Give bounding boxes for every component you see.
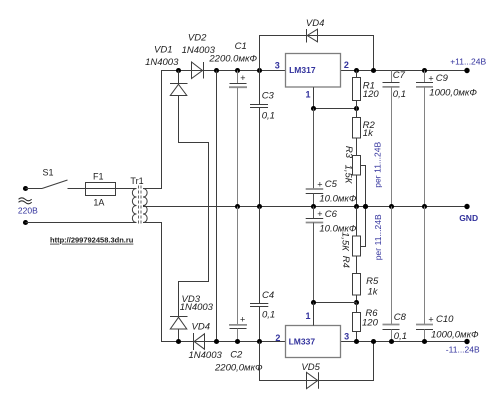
capacitor C9 (422, 68, 427, 73)
wire LM317 pin1 (313, 87, 315, 108)
svg-text:1000,0мкФ: 1000,0мкФ (431, 330, 479, 341)
svg-text:10.0мкФ: 10.0мкФ (319, 193, 356, 204)
svg-text:1N4003: 1N4003 (145, 57, 179, 68)
wire switch to fuse (68, 188, 86, 190)
op-amp U2 LM337 regulator box (286, 326, 341, 358)
svg-text:VD1: VD1 (154, 44, 172, 55)
svg-text:2: 2 (344, 60, 349, 70)
svg-text:3: 3 (344, 331, 349, 341)
svg-text:VD4: VD4 (306, 18, 324, 29)
svg-text:+11...24В: +11...24В (450, 57, 486, 67)
node input terminal top (23, 186, 28, 191)
svg-text:C8: C8 (394, 312, 407, 323)
svg-text:120: 120 (362, 318, 379, 329)
svg-text:1: 1 (305, 311, 310, 321)
svg-text:VD4: VD4 (192, 322, 210, 333)
resistor R1 (354, 68, 359, 73)
svg-text:2200.0мкФ: 2200.0мкФ (208, 53, 257, 64)
svg-text:+: + (240, 73, 245, 83)
diode VD5 bottom bypass (260, 342, 374, 381)
svg-text:C10: C10 (436, 314, 454, 325)
svg-text:рег 11...24В: рег 11...24В (373, 141, 383, 187)
svg-text:C7: C7 (393, 70, 406, 81)
diode VD1 (176, 68, 181, 73)
svg-text:R3: R3 (343, 146, 354, 159)
svg-text:1k: 1k (368, 286, 379, 297)
wire LM337 pin1 (313, 303, 315, 326)
capacitor C6 (313, 207, 315, 219)
svg-text:LM317: LM317 (289, 65, 316, 75)
node VD2 cathode (214, 68, 219, 73)
wire GND rail (143, 206, 467, 208)
svg-text:220В: 220В (18, 206, 38, 216)
resistor R2 (356, 109, 358, 118)
wire fuse to transformer (116, 188, 137, 190)
svg-text:C4: C4 (262, 290, 274, 301)
svg-text:1: 1 (305, 90, 310, 100)
wire input bottom (26, 222, 137, 224)
svg-text:1N4003: 1N4003 (189, 350, 223, 361)
diode VD3 (170, 316, 188, 318)
svg-text:0,1: 0,1 (394, 331, 407, 342)
svg-text:3: 3 (275, 61, 280, 71)
svg-text:+: + (317, 209, 322, 219)
capacitor C10 (424, 207, 426, 325)
svg-text:рег 11...24В: рег 11...24В (373, 214, 383, 260)
svg-text:C9: C9 (436, 73, 449, 84)
resistor R6 (354, 300, 359, 305)
svg-text:C6: C6 (325, 209, 338, 220)
capacitor C4 (257, 204, 262, 209)
svg-text:0,1: 0,1 (262, 111, 275, 122)
capacitor C2 (235, 204, 240, 209)
svg-text:+: + (240, 315, 245, 325)
wire top rail right (341, 70, 468, 72)
svg-text:GND: GND (459, 213, 478, 223)
svg-text:Tr1: Tr1 (130, 176, 143, 186)
wire input top (26, 188, 43, 190)
svg-text:0,1: 0,1 (262, 310, 275, 321)
wire vertical VD2 cathode to bottom rail (216, 71, 218, 342)
capacitor C7 (391, 71, 393, 83)
svg-text:2200,0мкФ: 2200,0мкФ (214, 363, 263, 374)
svg-text:1N4003: 1N4003 (180, 302, 214, 313)
svg-text:C5: C5 (325, 179, 338, 190)
svg-text:0,1: 0,1 (393, 89, 406, 100)
svg-text:C3: C3 (262, 90, 275, 101)
AC source symbol (19, 198, 32, 201)
svg-text:R4: R4 (340, 256, 351, 268)
wire ADJ line bottom (314, 302, 357, 304)
svg-text:C1: C1 (235, 41, 247, 52)
diode VD4 top bypass (260, 36, 374, 71)
wire secondary top (143, 71, 162, 189)
op-amp U1 LM317 regulator box (286, 54, 341, 88)
svg-text:1000,0мкФ: 1000,0мкФ (429, 88, 477, 99)
node GND terminal (464, 204, 469, 209)
resistor R3 potentiometer (353, 156, 361, 176)
svg-text:F1: F1 (93, 171, 104, 181)
node input terminal bottom (23, 220, 28, 225)
switch S1 (42, 180, 68, 189)
wire bottom rail left (161, 341, 286, 343)
svg-text:-11...24В: -11...24В (446, 344, 480, 354)
svg-text:2: 2 (275, 333, 280, 343)
resistor R5 (356, 256, 358, 274)
svg-text:LM337: LM337 (289, 336, 316, 346)
svg-text:+: + (428, 314, 433, 324)
svg-text:R5: R5 (366, 276, 379, 287)
wire secondary bottom (143, 223, 162, 342)
svg-text:+: + (428, 73, 433, 83)
fuse F1 (86, 183, 116, 196)
capacitor C8 (391, 207, 393, 325)
diode VD4 bottom (193, 333, 195, 350)
svg-text:+: + (317, 179, 322, 189)
svg-text:C2: C2 (230, 350, 243, 361)
resistor R4 potentiometer (356, 207, 358, 237)
wire ADJ line top (314, 108, 357, 110)
capacitor C1 (235, 68, 240, 73)
svg-text:http://299792458.3dn.ru: http://299792458.3dn.ru (50, 236, 134, 245)
capacitor C5 (313, 109, 315, 190)
svg-text:VD5: VD5 (301, 362, 320, 373)
wire VD1 anode zigzag to VD3 (179, 96, 209, 317)
svg-text:VD2: VD2 (188, 32, 207, 43)
svg-text:120: 120 (363, 89, 380, 100)
svg-text:1k: 1k (363, 128, 374, 139)
diode VD2 (192, 62, 203, 79)
svg-text:1,5К: 1,5К (343, 165, 354, 185)
node output positive (464, 68, 469, 73)
wire top rail left (161, 70, 286, 72)
wire bottom rail right (341, 341, 468, 343)
capacitor C3 (257, 68, 262, 73)
svg-text:S1: S1 (42, 168, 53, 178)
svg-text:1,5К: 1,5К (340, 232, 351, 252)
node output negative (464, 339, 469, 344)
svg-text:1A: 1A (93, 198, 104, 208)
